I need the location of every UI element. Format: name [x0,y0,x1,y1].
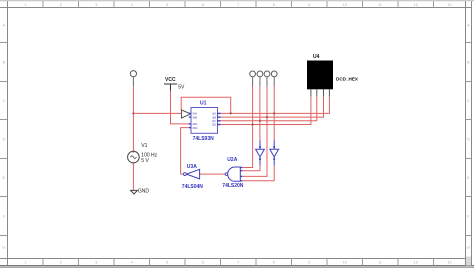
svg-text:R02: R02 [193,126,198,130]
svg-text:13: 13 [448,261,452,265]
svg-text:QD: QD [212,123,216,127]
svg-text:11: 11 [378,261,382,265]
svg-text:VCC: VCC [165,77,176,83]
svg-text:7: 7 [237,3,239,7]
svg-text:DCD_HEX: DCD_HEX [336,77,359,82]
svg-text:U4: U4 [313,54,320,60]
svg-text:QB: QB [212,115,216,119]
svg-text:3: 3 [95,261,97,265]
svg-text:4: 4 [131,3,133,7]
svg-text:1: 1 [24,261,26,265]
svg-text:74LS04N: 74LS04N [182,184,204,190]
svg-text:5: 5 [166,3,168,7]
svg-text:5: 5 [166,261,168,265]
svg-text:6: 6 [202,261,204,265]
svg-text:G: G [2,245,5,249]
svg-text:10: 10 [343,261,347,265]
svg-text:U3A: U3A [187,164,197,170]
svg-text:8: 8 [273,3,275,7]
svg-text:C: C [467,99,470,103]
svg-text:11: 11 [378,3,382,7]
svg-text:QA: QA [212,112,216,116]
svg-text:GND: GND [138,188,150,194]
svg-text:R01: R01 [193,122,198,126]
svg-text:12: 12 [414,261,418,265]
svg-text:C: C [2,99,5,103]
svg-text:9: 9 [308,261,310,265]
svg-text:6: 6 [202,3,204,7]
svg-text:QC: QC [212,119,216,123]
svg-text:1: 1 [24,3,26,7]
svg-text:13: 13 [448,3,452,7]
svg-text:V1: V1 [141,143,147,149]
svg-text:5V: 5V [178,85,185,91]
svg-text:2: 2 [60,261,62,265]
svg-text:INA: INA [193,112,198,116]
svg-text:U1: U1 [200,100,207,106]
svg-text:12: 12 [414,3,418,7]
svg-text:9: 9 [308,3,310,7]
svg-text:2: 2 [60,3,62,7]
svg-text:10: 10 [343,3,347,7]
svg-text:G: G [467,245,470,249]
svg-text:4: 4 [131,261,133,265]
svg-text:7: 7 [237,261,239,265]
svg-text:74LS93N: 74LS93N [193,136,215,142]
svg-text:74LS20N: 74LS20N [222,183,244,189]
svg-text:U2A: U2A [227,157,237,163]
svg-text:D: D [467,137,470,141]
svg-text:5 V: 5 V [141,158,149,164]
svg-text:INB: INB [193,115,198,119]
svg-text:3: 3 [95,3,97,7]
svg-text:8: 8 [273,261,275,265]
svg-text:D: D [2,137,5,141]
